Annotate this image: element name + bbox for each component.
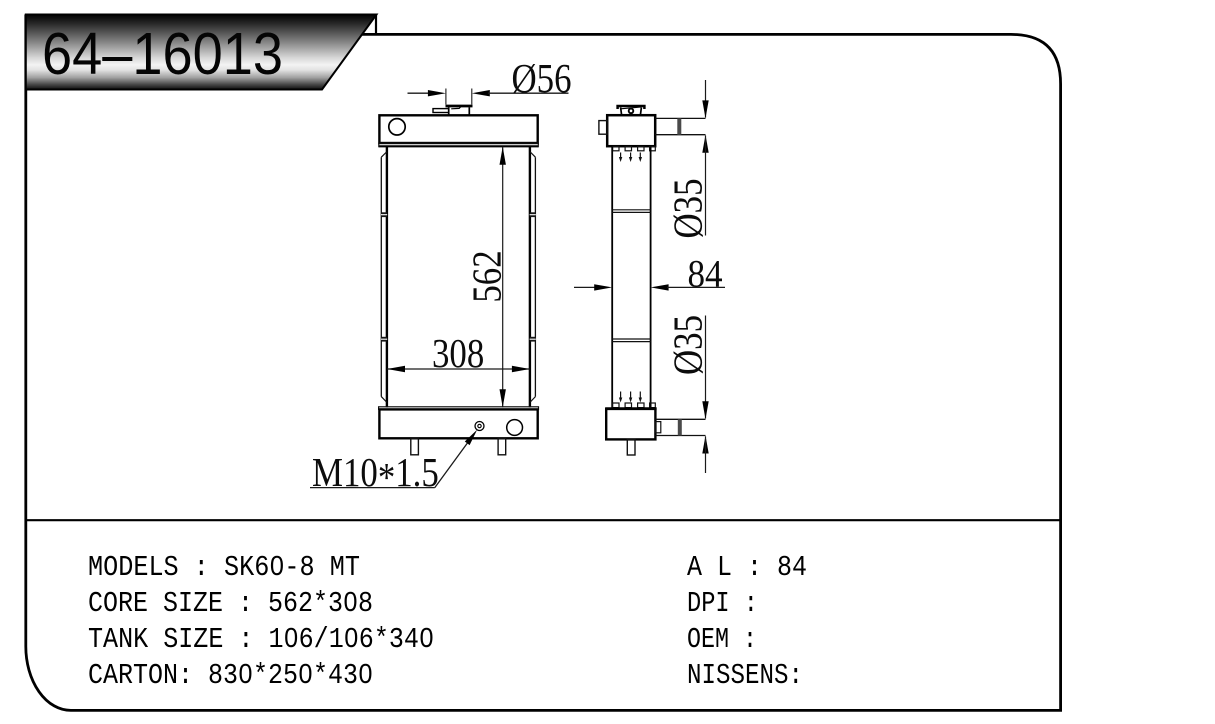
side view: bottom tank top tabs — [613, 403, 656, 408]
svg-text:Ø35: Ø35 — [666, 315, 711, 375]
front view: filler neck circle — [389, 119, 405, 135]
side view: bottom tank — [605, 409, 656, 440]
svg-text:M10*1.5: M10*1.5 — [312, 450, 439, 500]
dimension 308 — [387, 332, 530, 377]
svg-text:NISSENS:: NISSENS: — [687, 659, 803, 692]
svg-text:Ø56: Ø56 — [512, 56, 572, 101]
table divider line — [26, 519, 1061, 521]
svg-text:CARTON: 830*250*430: CARTON: 830*250*430 — [88, 659, 373, 692]
dimension 84 — [574, 253, 725, 296]
front view: M10 boss bullseye — [475, 422, 484, 431]
side view: cap lid — [618, 106, 645, 109]
front view: right side plate — [530, 152, 535, 402]
table text right column — [687, 551, 807, 692]
svg-text:CORE SIZE : 562*308: CORE SIZE : 562*308 — [88, 587, 373, 620]
front view: bottom tank — [379, 409, 537, 438]
front view: left side plate — [381, 152, 386, 402]
front view: right leg — [498, 438, 506, 454]
leader M10*1.5 — [310, 430, 477, 501]
side view: top pipe — [655, 118, 705, 134]
side view: top left tab — [599, 121, 607, 135]
svg-text:OEM :: OEM : — [687, 623, 757, 656]
dimension Ø56 — [408, 56, 572, 104]
side view: top tank — [607, 115, 655, 146]
side view: bottom pins — [619, 392, 642, 403]
side view: bottom pipe — [655, 419, 705, 435]
side view: top tank bottom tabs — [613, 146, 656, 150]
svg-text:MODELS : SK60-8 MT: MODELS : SK60-8 MT — [88, 551, 360, 584]
front view: top tank — [379, 115, 539, 147]
svg-text:A L : 84: A L : 84 — [687, 551, 807, 584]
dimension Ø35 upper — [666, 80, 711, 238]
front view: filler cap — [446, 106, 473, 115]
front view: core right bold edge — [529, 147, 531, 408]
side view: core left edge — [611, 146, 613, 408]
front view: plate notch upper-right — [530, 212, 536, 217]
side view: cap body — [621, 107, 642, 115]
front view: left leg — [411, 438, 419, 454]
side view: core right edge — [650, 146, 652, 408]
side view: core division lower — [612, 339, 650, 342]
side view: top pins — [619, 153, 642, 163]
svg-text:Ø35: Ø35 — [666, 179, 711, 239]
front view: plate notch upper-left — [381, 212, 387, 217]
front view: plate notch lower-left — [381, 337, 387, 342]
front view: core left bold edge — [386, 147, 388, 408]
badge plate — [26, 15, 377, 90]
svg-text:64–16013: 64–16013 — [42, 21, 283, 87]
dimension 562 — [465, 147, 510, 407]
svg-text:562: 562 — [465, 250, 510, 302]
zero glyph dot masks — [243, 561, 429, 676]
svg-text:308: 308 — [432, 332, 484, 377]
badge notch tick — [375, 15, 377, 35]
svg-text:DPI :: DPI : — [687, 587, 758, 620]
front view: plate notch lower-right — [530, 337, 536, 342]
front view: drain hole circle — [507, 420, 523, 436]
side view: core division upper — [612, 210, 650, 213]
front view: bottom flange strip — [379, 407, 539, 410]
table text left column — [88, 551, 434, 692]
front view: overflow pipe — [433, 109, 449, 113]
svg-text:TANK SIZE : 106/106*340: TANK SIZE : 106/106*340 — [88, 623, 434, 656]
dimension Ø35 lower — [666, 315, 711, 473]
side view: bottom spigot — [627, 439, 635, 455]
svg-text:84: 84 — [688, 253, 723, 296]
